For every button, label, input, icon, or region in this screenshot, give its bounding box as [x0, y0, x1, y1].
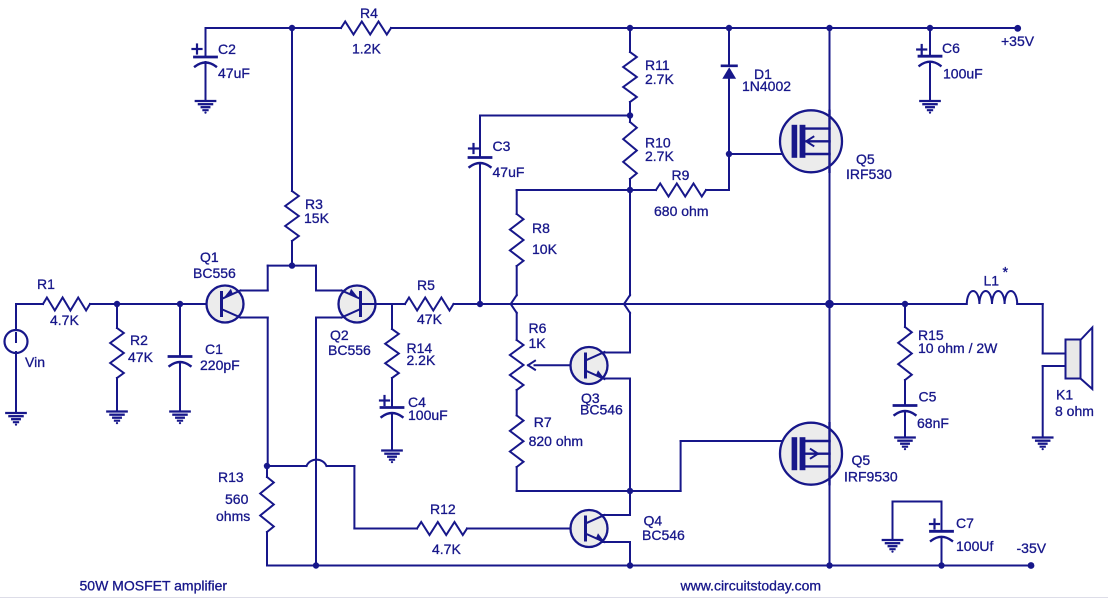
svg-text:Q5: Q5	[856, 151, 875, 167]
node IRF9530-rail junction	[826, 562, 832, 568]
svg-text:68nF: 68nF	[917, 415, 949, 431]
wire link to R12 with hop	[267, 465, 307, 467]
transistor Q2	[339, 286, 376, 323]
ground C2	[196, 100, 215, 102]
wire C5 to ground	[904, 412, 906, 437]
wire rail to R3	[291, 28, 293, 191]
svg-text:BC546: BC546	[642, 527, 685, 543]
node D1-gate junction	[726, 151, 732, 157]
diode D1	[722, 65, 737, 68]
wire R8 to jog	[516, 266, 518, 295]
resistor R14	[385, 329, 399, 378]
svg-text:4.7K: 4.7K	[50, 312, 79, 328]
svg-text:47uF: 47uF	[493, 164, 525, 180]
wire R14 drop	[391, 304, 393, 329]
wire C6 to ground	[929, 63, 931, 100]
wire Q2 collector drop	[316, 317, 342, 319]
svg-text:C5: C5	[919, 389, 937, 405]
transistor Q4	[571, 510, 608, 547]
wire R11 to node	[629, 102, 631, 116]
svg-text:Q1: Q1	[200, 249, 219, 265]
svg-text:10K: 10K	[532, 241, 558, 257]
resistor R9	[656, 184, 706, 197]
mosfet Q5 IRF9530	[780, 423, 842, 485]
wire R9 to gate node	[706, 189, 729, 191]
wire node to C1	[179, 304, 181, 356]
wire jog over output rail right	[624, 295, 630, 313]
wire C1 to ground	[179, 363, 181, 411]
speaker K1	[1081, 328, 1093, 390]
svg-text:ohms: ohms	[216, 508, 250, 524]
wire R2 to ground	[116, 378, 118, 411]
wire R1 to Q1 base	[90, 303, 222, 305]
svg-text:C1: C1	[205, 341, 223, 357]
svg-text:L1: L1	[984, 273, 1000, 289]
ground C4	[382, 449, 401, 451]
wire -35V bottom rail	[267, 565, 1031, 567]
node R10-R9-R8 junction	[627, 187, 633, 193]
node rail-Q5 junction	[826, 25, 832, 31]
node rail-D1 junction	[726, 25, 732, 31]
inductor L1	[967, 291, 1017, 304]
wire gate link Q5 IRF530	[729, 153, 792, 155]
ground R2	[107, 410, 126, 412]
wire node to R9	[630, 189, 656, 191]
svg-text:R12: R12	[430, 501, 456, 517]
wire C3 top link	[479, 116, 481, 157]
wire D1 to gate node	[728, 78, 730, 154]
svg-text:220pF: 220pF	[200, 357, 240, 373]
svg-text:C2: C2	[218, 41, 236, 57]
node R5-C3 junction	[477, 301, 483, 307]
svg-text:R9: R9	[672, 167, 690, 183]
ground C1	[170, 410, 189, 412]
svg-text:R2: R2	[130, 332, 148, 348]
resistor R12	[417, 522, 467, 535]
svg-text:1.2K: 1.2K	[352, 41, 381, 57]
resistor R1	[43, 298, 90, 311]
wire R10 to node	[629, 179, 631, 190]
svg-text:C7: C7	[956, 515, 974, 531]
wire R8 top link	[517, 189, 630, 191]
wire R13 to bottom rail	[266, 532, 268, 566]
svg-text:R6: R6	[529, 320, 547, 336]
svg-text:50W MOSFET amplifier: 50W MOSFET amplifier	[80, 578, 228, 594]
capacitor C1	[169, 355, 191, 358]
node output-R15 junction	[902, 301, 908, 307]
ground Vin	[6, 412, 25, 414]
wire Q1 emitter riser	[241, 290, 268, 292]
node Q2 collector-rail junction	[313, 562, 319, 568]
capacitor C5	[894, 404, 916, 407]
wire drain drop Q5 IRF530	[829, 28, 831, 304]
resistor R15	[898, 327, 912, 380]
wire jog over output rail left	[511, 295, 517, 313]
wire source drop Q5 IRF9530	[829, 304, 831, 566]
capacitor C3	[469, 156, 491, 159]
svg-text:2.7K: 2.7K	[645, 71, 674, 87]
svg-text:IRF530: IRF530	[846, 166, 892, 182]
svg-text:IRF9530: IRF9530	[844, 469, 898, 485]
svg-text:100uF: 100uF	[943, 66, 983, 82]
wire jog to Q3 collector	[629, 313, 631, 353]
wire Q2 base to R5	[361, 303, 406, 305]
resistor R11	[623, 52, 637, 102]
wire C7 to rail	[941, 538, 943, 566]
resistor R6 preset	[510, 340, 524, 390]
svg-text:2.2K: 2.2K	[407, 352, 436, 368]
svg-text:R13: R13	[218, 469, 244, 485]
ground C7	[883, 539, 902, 541]
svg-text:47uF: 47uF	[218, 65, 250, 81]
wire +35V top rail right	[391, 27, 1018, 29]
wire C3 to output node	[479, 164, 481, 304]
wire R7 to bias node	[516, 467, 518, 491]
resistor R7	[510, 415, 524, 467]
svg-text:10 ohm / 2W: 10 ohm / 2W	[918, 340, 998, 356]
svg-text:820 ohm: 820 ohm	[529, 433, 583, 449]
wire bias node to IRF9530 gate	[630, 490, 681, 492]
node rail-C6 junction	[927, 25, 933, 31]
wire R6 to R7	[516, 390, 518, 415]
svg-text:560: 560	[225, 491, 249, 507]
svg-text:2.7K: 2.7K	[645, 148, 674, 164]
node R2 junction	[114, 301, 120, 307]
resistor R8	[510, 214, 524, 266]
wire node to R2	[116, 304, 118, 328]
node Q4 emitter-rail junction	[627, 562, 633, 568]
mosfet Q5 IRF530	[780, 110, 842, 172]
wire bottom faint separator	[0, 597, 1108, 599]
wire C7 ground link	[941, 502, 943, 532]
resistor R2	[110, 328, 124, 378]
svg-text:C6: C6	[942, 40, 960, 56]
wire Q4 emitter to rail	[602, 541, 631, 543]
svg-text:100Uf: 100Uf	[956, 538, 993, 554]
resistor R5	[405, 298, 454, 311]
svg-text:R8: R8	[532, 220, 550, 236]
wire node to R13	[266, 466, 268, 477]
resistor R10	[623, 122, 637, 179]
svg-text:100uF: 100uF	[408, 407, 448, 423]
svg-text:BC556: BC556	[328, 342, 371, 358]
wire rail to D1	[728, 28, 730, 66]
svg-text:47K: 47K	[128, 349, 154, 365]
wire output rail	[480, 303, 830, 305]
svg-text:www.circuitstoday.com: www.circuitstoday.com	[680, 578, 822, 594]
wire C4 to ground	[391, 414, 393, 450]
wire rail to R11	[629, 28, 631, 52]
svg-text:4.7K: 4.7K	[432, 541, 461, 557]
svg-text:R1: R1	[37, 276, 55, 292]
svg-text:C3: C3	[493, 138, 511, 154]
wire R5 to C3 node	[454, 303, 481, 305]
wire R10 node to jog	[629, 190, 631, 295]
wire Q4 collector to bias node	[602, 514, 631, 516]
capacitor C7	[931, 530, 953, 533]
svg-text:+35V: +35V	[1001, 33, 1035, 49]
wire R14 to C4	[391, 378, 393, 408]
wire node to R10	[629, 116, 631, 123]
wire R3 to emitter bridge	[291, 241, 293, 266]
wire R12 to Q4 base	[467, 528, 584, 530]
wire R15 to C5	[904, 380, 906, 406]
svg-text:1N4002: 1N4002	[742, 78, 791, 94]
capacitor C4	[381, 406, 403, 409]
node R11-R10-C3 junction	[627, 112, 633, 118]
svg-text:R4: R4	[360, 5, 378, 21]
wire output rail right	[830, 303, 967, 305]
svg-text:Vin: Vin	[25, 354, 45, 370]
source Vin	[5, 330, 28, 353]
ground C5	[895, 436, 914, 438]
wire Vin to ground	[15, 352, 17, 412]
wire speaker lower terminal	[1043, 365, 1066, 367]
node rail-R11 junction	[627, 25, 633, 31]
svg-text:15K: 15K	[304, 210, 330, 226]
svg-text:1K: 1K	[529, 335, 547, 351]
capacitor C2	[195, 56, 217, 59]
resistor R3	[285, 191, 299, 241]
ground C6	[920, 100, 939, 102]
node bias junction	[627, 488, 633, 494]
node bottom rail end -35V terminal	[1028, 562, 1035, 569]
svg-text:47K: 47K	[417, 311, 443, 327]
node rail-R3 junction	[289, 25, 295, 31]
svg-text:K1: K1	[1056, 387, 1073, 403]
wire R6 wiper arrow	[535, 364, 584, 366]
wire L1 to speaker	[1017, 303, 1042, 305]
svg-text:680 ohm: 680 ohm	[654, 203, 708, 219]
wire node to R15	[904, 304, 906, 327]
svg-text:Q5: Q5	[852, 452, 871, 468]
node Q1 collector-R13 junction	[264, 463, 270, 469]
ground speaker	[1033, 436, 1052, 438]
wire jog to R6	[516, 313, 518, 340]
svg-text:*: *	[1003, 265, 1009, 281]
wire rail to C6	[929, 28, 931, 56]
transistor Q3	[571, 347, 608, 384]
wire Q2 emitter riser	[316, 290, 342, 292]
wire C2 drop	[205, 28, 207, 56]
capacitor C6	[919, 55, 941, 58]
resistor R13	[260, 477, 274, 532]
svg-text:R7: R7	[534, 414, 552, 430]
svg-text:BC546: BC546	[580, 402, 623, 418]
wire Q1 collector drop	[241, 317, 268, 319]
node top rail end +35V terminal	[1014, 25, 1021, 32]
wire emitter bridge	[268, 265, 316, 267]
svg-text:BC556: BC556	[193, 265, 236, 281]
node C1 junction	[177, 301, 183, 307]
svg-text:8 ohm: 8 ohm	[1055, 403, 1094, 419]
wire Q3 emitter to bias node	[602, 378, 631, 380]
svg-text:-35V: -35V	[1017, 540, 1047, 556]
wire Vin to R1	[15, 304, 17, 332]
wire +35V top rail left	[206, 27, 342, 29]
node C7-rail junction	[938, 562, 944, 568]
resistor R4	[341, 22, 391, 35]
transistor Q1	[207, 286, 244, 323]
node emitter bridge junction	[289, 262, 295, 268]
svg-text:R5: R5	[417, 277, 435, 293]
svg-text:Q2: Q2	[330, 327, 349, 343]
node output junction	[825, 300, 834, 309]
